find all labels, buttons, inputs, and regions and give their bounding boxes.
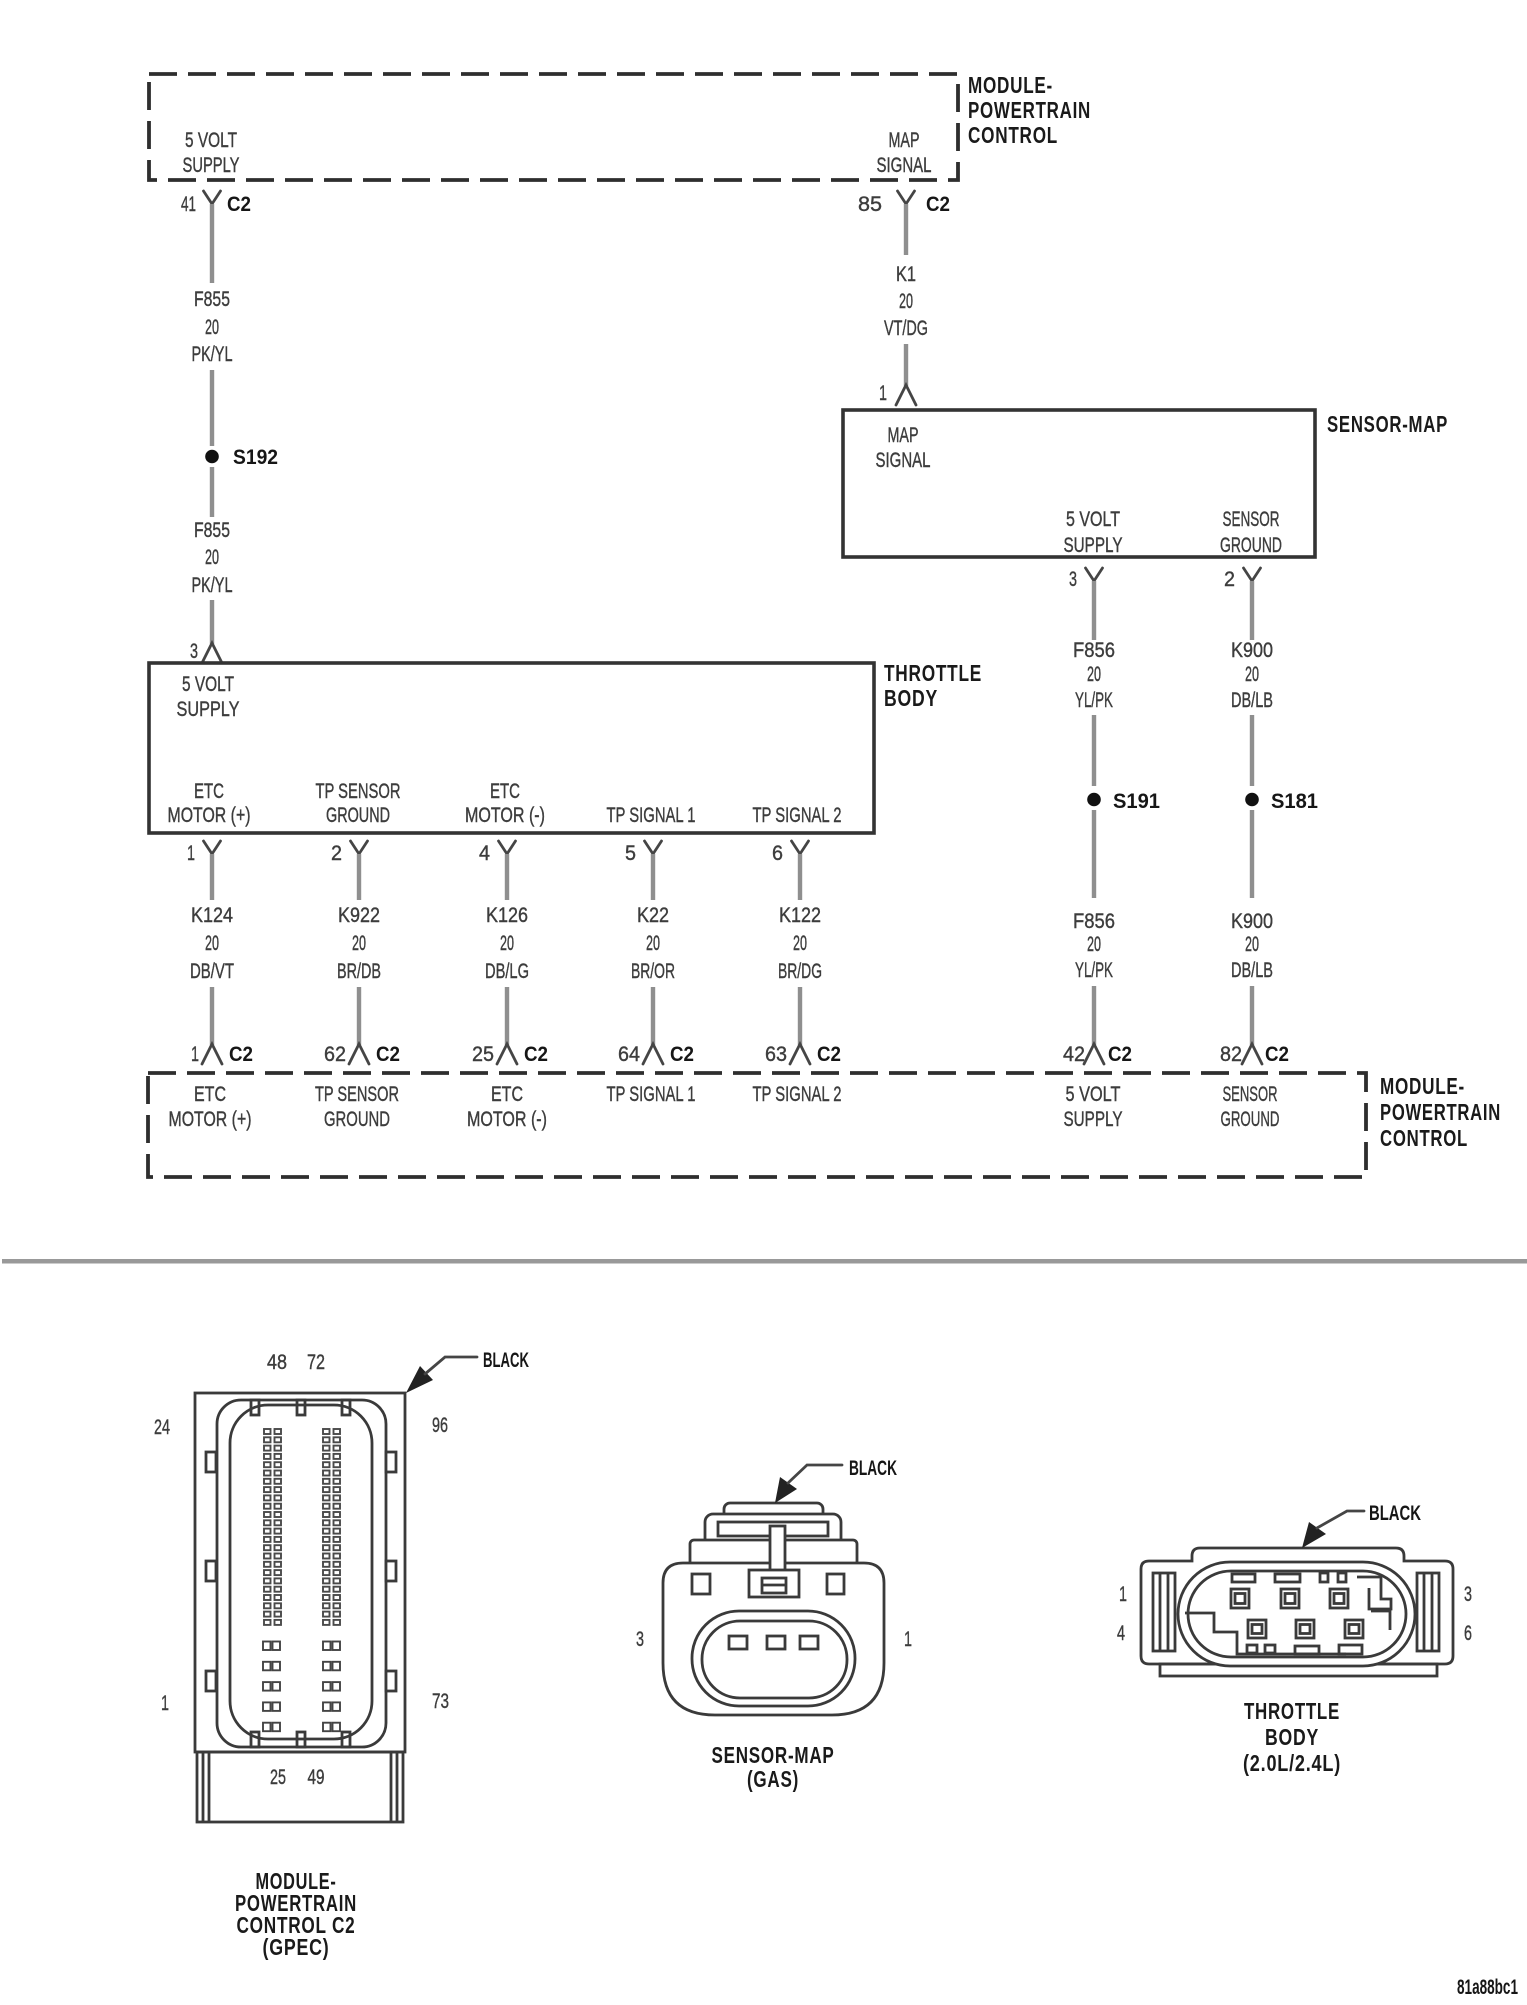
svg-text:POWERTRAIN: POWERTRAIN [1380, 1099, 1501, 1125]
svg-text:20: 20 [646, 932, 660, 955]
svg-text:SIGNAL: SIGNAL [876, 449, 931, 472]
svg-text:25: 25 [270, 1766, 286, 1789]
svg-text:5 VOLT: 5 VOLT [1066, 1083, 1121, 1106]
svg-text:K922: K922 [338, 904, 380, 927]
svg-text:63: 63 [765, 1043, 787, 1066]
svg-text:41: 41 [181, 193, 196, 216]
svg-text:C2: C2 [227, 193, 251, 216]
svg-text:1: 1 [904, 1628, 912, 1651]
svg-text:81a88bc1: 81a88bc1 [1457, 1976, 1518, 1999]
svg-text:5 VOLT: 5 VOLT [182, 673, 234, 696]
svg-text:GROUND: GROUND [326, 804, 390, 827]
svg-text:MOTOR (+): MOTOR (+) [168, 804, 251, 827]
svg-text:K22: K22 [637, 904, 669, 927]
svg-text:5: 5 [625, 842, 636, 865]
svg-text:BR/OR: BR/OR [631, 960, 675, 983]
svg-text:20: 20 [205, 546, 219, 569]
svg-text:DB/VT: DB/VT [190, 960, 234, 983]
svg-text:POWERTRAIN: POWERTRAIN [968, 97, 1091, 123]
svg-text:K126: K126 [486, 904, 528, 927]
svg-text:25: 25 [472, 1043, 494, 1066]
svg-text:C2: C2 [1108, 1043, 1132, 1066]
svg-text:4: 4 [479, 842, 490, 865]
svg-text:1: 1 [187, 842, 195, 865]
svg-text:THROTTLE: THROTTLE [1244, 1698, 1340, 1724]
svg-text:TP SENSOR: TP SENSOR [315, 1083, 399, 1106]
svg-text:PK/YL: PK/YL [192, 343, 233, 366]
svg-text:S192: S192 [233, 446, 278, 469]
svg-text:20: 20 [205, 316, 219, 339]
svg-text:S191: S191 [1113, 790, 1160, 813]
svg-text:(2.0L/2.4L): (2.0L/2.4L) [1243, 1750, 1341, 1776]
svg-text:K124: K124 [191, 904, 233, 927]
svg-text:6: 6 [1464, 1622, 1472, 1645]
svg-text:K900: K900 [1231, 639, 1273, 662]
svg-text:4: 4 [1117, 1622, 1125, 1645]
svg-text:3: 3 [190, 640, 198, 663]
svg-text:62: 62 [324, 1043, 346, 1066]
svg-text:DB/LB: DB/LB [1231, 959, 1273, 982]
svg-text:SUPPLY: SUPPLY [1064, 534, 1123, 557]
svg-text:MOTOR (-): MOTOR (-) [467, 1108, 547, 1131]
svg-text:85: 85 [858, 193, 882, 216]
svg-text:96: 96 [432, 1414, 448, 1437]
svg-text:20: 20 [500, 932, 514, 955]
svg-text:TP SIGNAL 1: TP SIGNAL 1 [607, 1083, 696, 1106]
svg-text:(GAS): (GAS) [747, 1766, 799, 1792]
svg-text:S181: S181 [1271, 790, 1318, 813]
svg-text:64: 64 [618, 1043, 640, 1066]
svg-text:3: 3 [1464, 1583, 1472, 1606]
svg-text:TP SENSOR: TP SENSOR [316, 780, 401, 803]
svg-text:20: 20 [1245, 933, 1259, 956]
svg-text:20: 20 [352, 932, 366, 955]
svg-text:BLACK: BLACK [849, 1457, 897, 1480]
svg-text:ETC: ETC [194, 1083, 226, 1106]
svg-text:CONTROL: CONTROL [968, 122, 1058, 148]
svg-text:C2: C2 [1265, 1043, 1289, 1066]
svg-text:ETC: ETC [491, 1083, 523, 1106]
svg-text:49: 49 [308, 1766, 325, 1789]
svg-text:K900: K900 [1231, 910, 1273, 933]
svg-text:C2: C2 [524, 1043, 548, 1066]
svg-text:SUPPLY: SUPPLY [177, 698, 240, 721]
svg-text:20: 20 [1087, 933, 1101, 956]
svg-text:48: 48 [267, 1351, 287, 1374]
svg-text:ETC: ETC [490, 780, 520, 803]
svg-text:PK/YL: PK/YL [192, 574, 233, 597]
svg-text:C2: C2 [817, 1043, 841, 1066]
svg-text:VT/DG: VT/DG [884, 317, 928, 340]
svg-text:K122: K122 [779, 904, 821, 927]
svg-text:MOTOR (-): MOTOR (-) [465, 804, 545, 827]
svg-text:C2: C2 [376, 1043, 400, 1066]
svg-text:F855: F855 [194, 288, 230, 311]
svg-text:MAP: MAP [888, 424, 919, 447]
svg-text:72: 72 [307, 1351, 325, 1374]
svg-text:1: 1 [161, 1692, 169, 1715]
svg-text:SENSOR: SENSOR [1223, 1083, 1278, 1106]
svg-text:MOTOR (+): MOTOR (+) [169, 1108, 252, 1131]
svg-text:C2: C2 [670, 1043, 694, 1066]
svg-text:3: 3 [636, 1628, 644, 1651]
svg-text:5 VOLT: 5 VOLT [1066, 508, 1120, 531]
svg-text:(GPEC): (GPEC) [263, 1934, 330, 1960]
svg-text:BODY: BODY [1265, 1724, 1319, 1750]
svg-text:F855: F855 [194, 519, 230, 542]
svg-text:6: 6 [772, 842, 783, 865]
svg-text:1: 1 [191, 1043, 199, 1066]
svg-text:2: 2 [331, 842, 342, 865]
svg-text:MAP: MAP [889, 129, 920, 152]
svg-text:3: 3 [1069, 568, 1077, 591]
svg-text:SUPPLY: SUPPLY [183, 154, 240, 177]
svg-text:GROUND: GROUND [1221, 1108, 1280, 1131]
svg-text:SENSOR-MAP: SENSOR-MAP [712, 1742, 835, 1768]
svg-text:20: 20 [1245, 663, 1259, 686]
svg-text:24: 24 [154, 1416, 170, 1439]
svg-text:SENSOR-MAP: SENSOR-MAP [1327, 411, 1448, 437]
svg-text:BLACK: BLACK [483, 1349, 529, 1372]
svg-text:1: 1 [879, 382, 887, 405]
svg-text:GROUND: GROUND [324, 1108, 390, 1131]
svg-text:20: 20 [793, 932, 807, 955]
svg-text:SIGNAL: SIGNAL [877, 154, 932, 177]
svg-text:DB/LB: DB/LB [1231, 689, 1273, 712]
svg-text:20: 20 [1087, 663, 1101, 686]
svg-text:TP SIGNAL 2: TP SIGNAL 2 [753, 1083, 842, 1106]
svg-text:GROUND: GROUND [1220, 534, 1282, 557]
svg-text:TP SIGNAL 1: TP SIGNAL 1 [607, 804, 696, 827]
svg-text:TP SIGNAL 2: TP SIGNAL 2 [753, 804, 842, 827]
svg-text:THROTTLE: THROTTLE [884, 660, 982, 686]
svg-text:1: 1 [1119, 1583, 1127, 1606]
svg-text:BR/DG: BR/DG [778, 960, 822, 983]
svg-text:ETC: ETC [194, 780, 224, 803]
svg-text:F856: F856 [1073, 910, 1115, 933]
svg-text:MODULE-: MODULE- [968, 72, 1053, 98]
svg-text:2: 2 [1224, 568, 1235, 591]
svg-text:20: 20 [899, 290, 913, 313]
svg-text:BLACK: BLACK [1369, 1502, 1421, 1525]
svg-text:42: 42 [1063, 1043, 1085, 1066]
svg-text:C2: C2 [229, 1043, 253, 1066]
svg-text:BODY: BODY [884, 685, 938, 711]
svg-text:SENSOR: SENSOR [1223, 508, 1280, 531]
svg-text:20: 20 [205, 932, 219, 955]
svg-text:5 VOLT: 5 VOLT [185, 129, 237, 152]
svg-text:YL/PK: YL/PK [1075, 959, 1113, 982]
svg-text:MODULE-: MODULE- [1380, 1073, 1465, 1099]
svg-text:K1: K1 [896, 263, 916, 286]
svg-text:F856: F856 [1073, 639, 1115, 662]
svg-text:DB/LG: DB/LG [485, 960, 529, 983]
svg-text:C2: C2 [926, 193, 950, 216]
svg-text:73: 73 [432, 1690, 449, 1713]
svg-text:BR/DB: BR/DB [337, 960, 381, 983]
svg-text:SUPPLY: SUPPLY [1064, 1108, 1123, 1131]
svg-text:82: 82 [1220, 1043, 1242, 1066]
svg-text:YL/PK: YL/PK [1075, 689, 1113, 712]
svg-text:CONTROL: CONTROL [1380, 1125, 1468, 1151]
